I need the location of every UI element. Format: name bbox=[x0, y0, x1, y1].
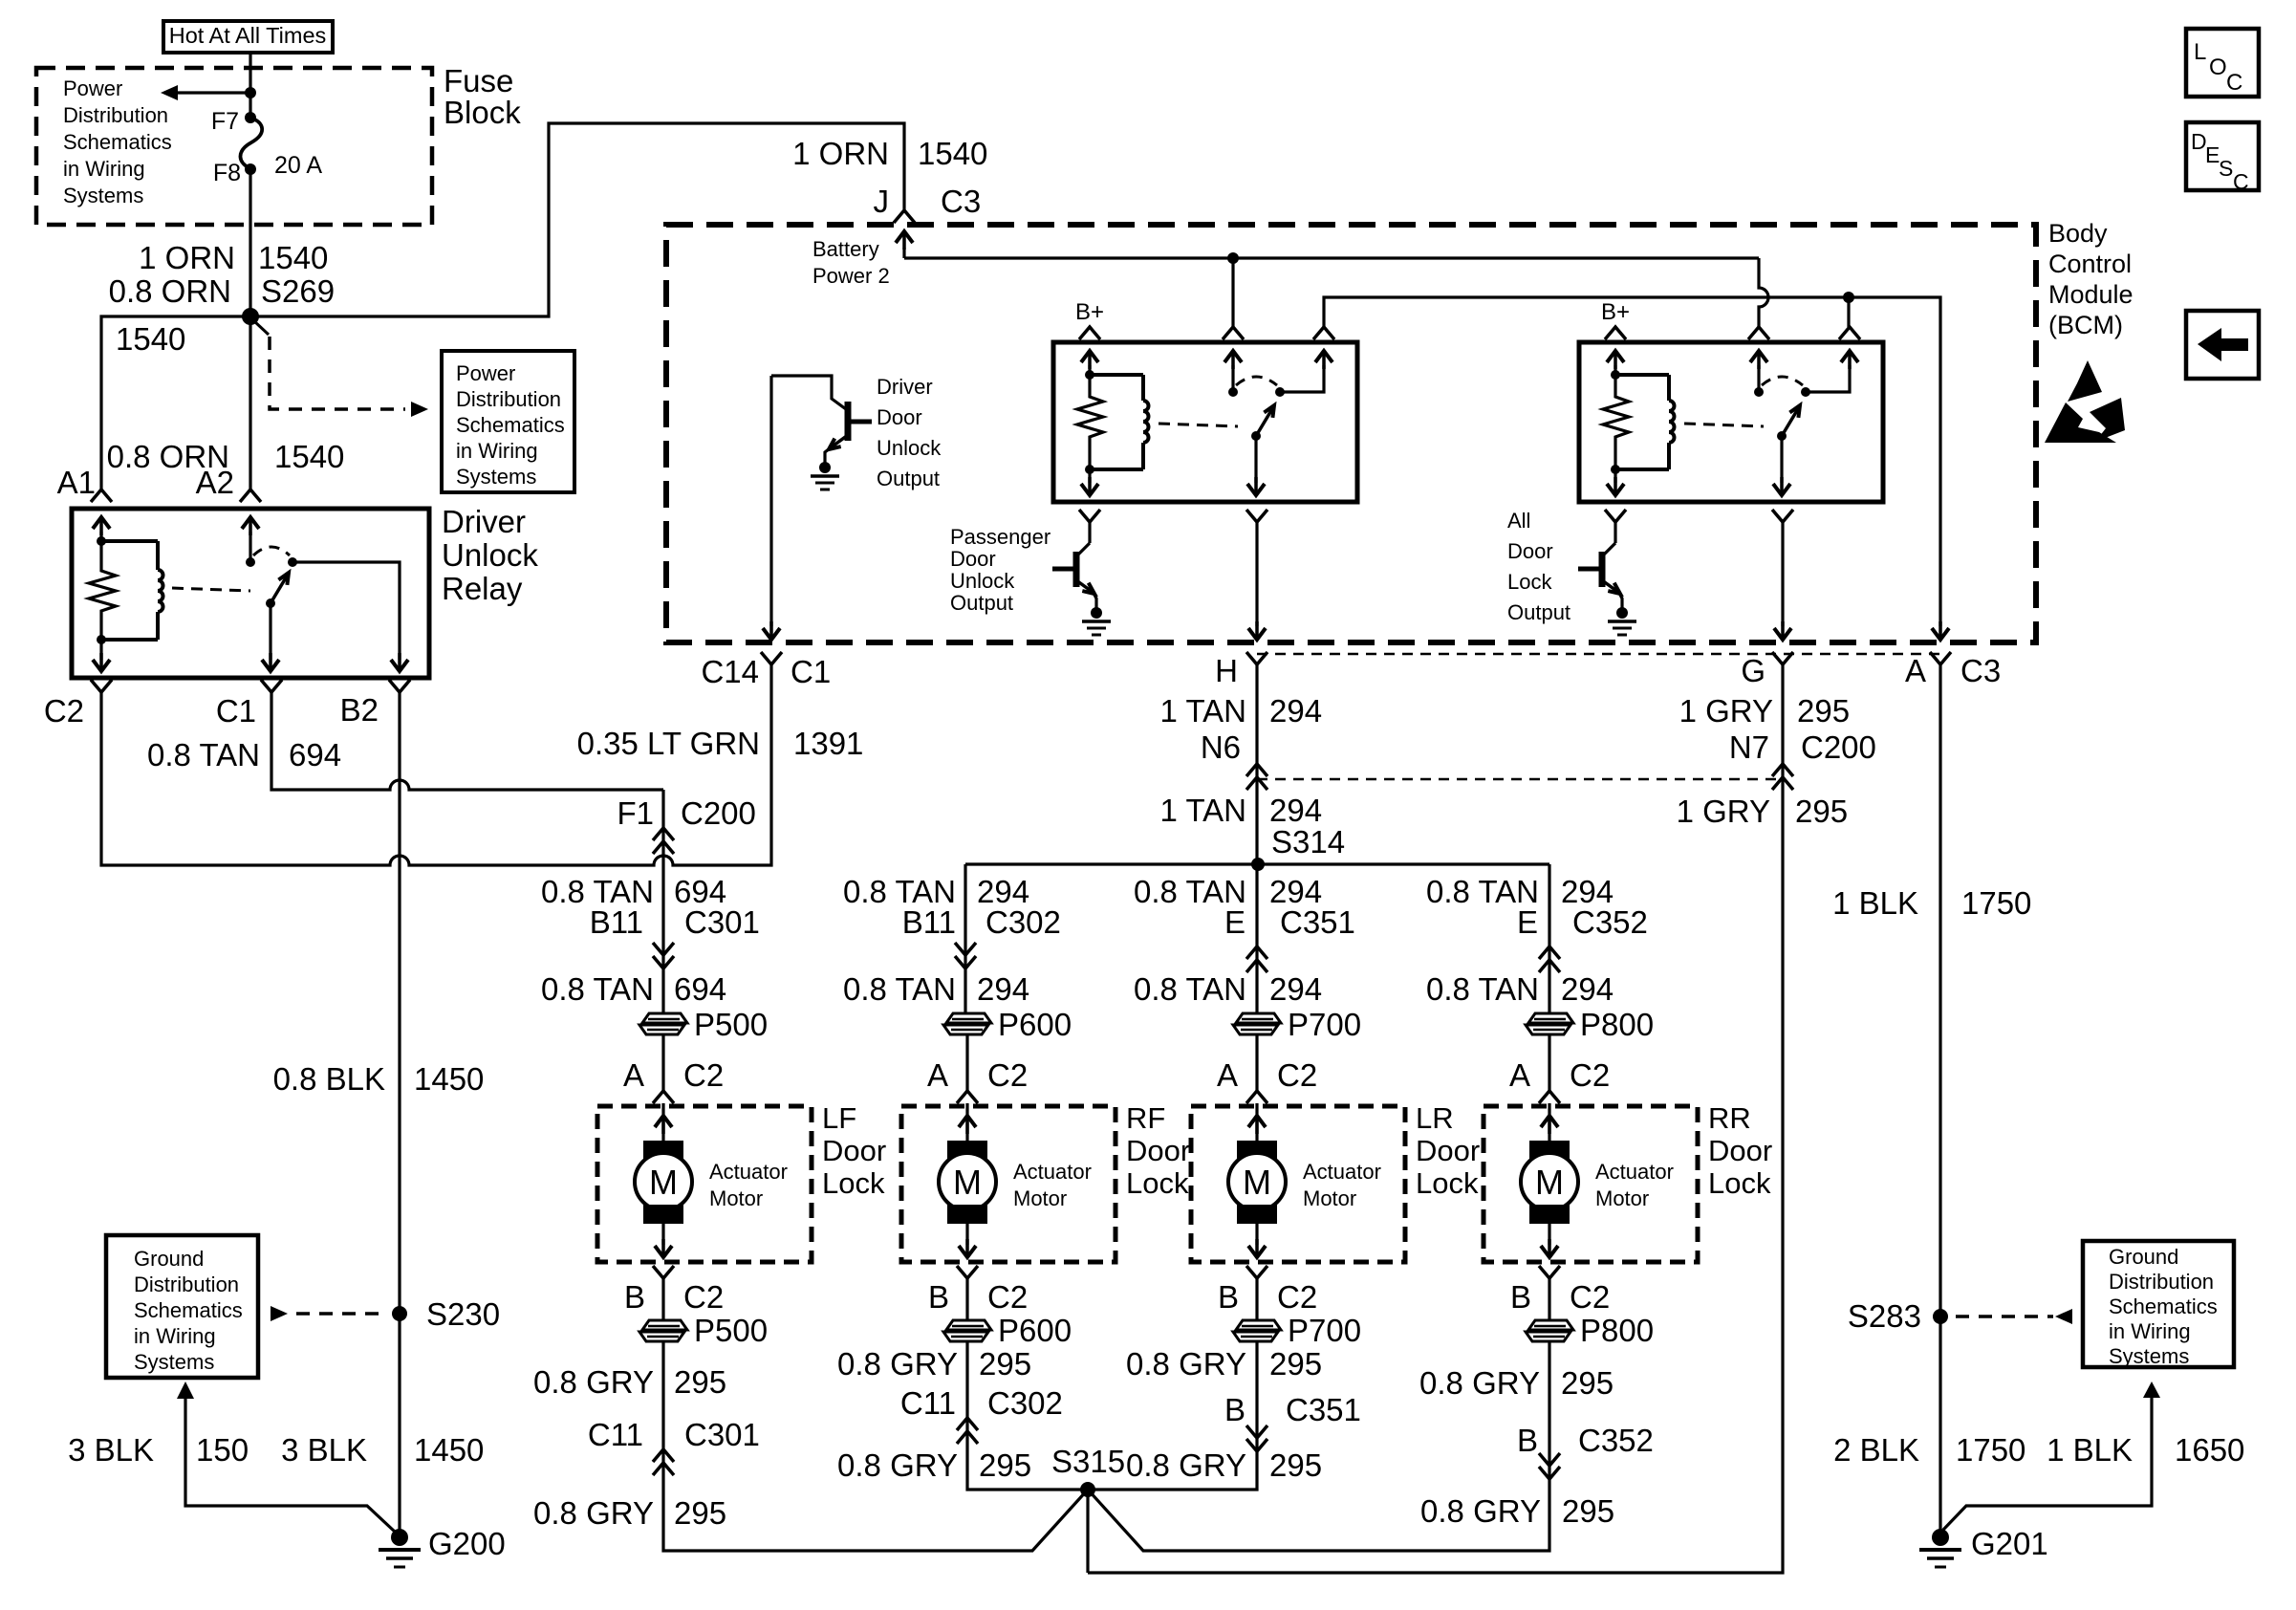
svg-text:1450: 1450 bbox=[414, 1432, 484, 1468]
ground at Q2 emitter bbox=[1091, 607, 1102, 619]
connector B11 C302 double vee bbox=[955, 943, 976, 955]
svg-text:Lock: Lock bbox=[1416, 1166, 1479, 1200]
wire 294 RR to P800 bbox=[1548, 946, 1550, 1013]
connector vee at C2 bbox=[91, 680, 112, 692]
svg-text:LR: LR bbox=[1416, 1101, 1454, 1135]
svg-text:0.35 LT GRN: 0.35 LT GRN bbox=[577, 726, 760, 761]
svg-text:C14: C14 bbox=[701, 654, 759, 689]
svg-text:C3: C3 bbox=[1960, 653, 2001, 688]
svg-text:B+: B+ bbox=[1075, 299, 1104, 325]
dashed reference to S230 bbox=[271, 1306, 288, 1321]
connector E C352 double caret bbox=[1539, 946, 1560, 959]
RF actuator return arrow bbox=[965, 1224, 968, 1245]
svg-text:Ground: Ground bbox=[134, 1247, 204, 1271]
svg-text:Fuse: Fuse bbox=[444, 63, 513, 98]
svg-text:0.8 TAN: 0.8 TAN bbox=[843, 971, 956, 1007]
svg-text:294: 294 bbox=[1269, 693, 1322, 729]
svg-text:F8: F8 bbox=[213, 160, 241, 186]
svg-text:Motor: Motor bbox=[1013, 1186, 1067, 1210]
LF actuator return arrow bbox=[661, 1224, 664, 1245]
svg-text:294: 294 bbox=[1269, 971, 1322, 1007]
svg-text:1450: 1450 bbox=[414, 1061, 484, 1097]
svg-text:Power: Power bbox=[456, 361, 515, 385]
svg-text:H: H bbox=[1215, 653, 1238, 688]
wire 294 LR to P700 bbox=[1255, 946, 1258, 1013]
ground G201 bbox=[1932, 1529, 1949, 1546]
wire 1 BLK 1750 pin A to S283 bbox=[1939, 664, 1941, 1316]
svg-text:P800: P800 bbox=[1580, 1313, 1654, 1348]
svg-text:M: M bbox=[1535, 1163, 1564, 1202]
relay coil exit arrow to C2 bbox=[99, 640, 102, 660]
svg-text:P500: P500 bbox=[694, 1007, 768, 1042]
svg-text:0.8 TAN: 0.8 TAN bbox=[541, 971, 654, 1007]
RR actuator return arrow bbox=[1548, 1224, 1550, 1245]
svg-text:C: C bbox=[2226, 70, 2242, 96]
wire 295 RR return bbox=[1088, 1341, 1549, 1551]
svg-text:S314: S314 bbox=[1271, 824, 1345, 859]
connector vee BCM pin G bbox=[1772, 652, 1793, 664]
svg-text:A1: A1 bbox=[57, 465, 96, 500]
svg-text:C2: C2 bbox=[683, 1279, 724, 1315]
svg-text:J: J bbox=[874, 184, 890, 219]
battery power 2 bus wire bbox=[904, 256, 1759, 259]
wire into RF actuator bbox=[965, 1035, 968, 1091]
svg-text:S315: S315 bbox=[1051, 1444, 1125, 1479]
svg-text:F7: F7 bbox=[211, 108, 239, 135]
svg-text:C352: C352 bbox=[1578, 1423, 1654, 1458]
grommet P700 (lower) bbox=[1236, 1320, 1281, 1330]
svg-text:Output: Output bbox=[950, 591, 1013, 615]
relay U1 unlock coil exit arrow bbox=[1088, 469, 1091, 483]
relay U2 all-door-lock switch throw arc (dashed) bbox=[1762, 377, 1803, 385]
svg-text:A: A bbox=[1905, 653, 1926, 688]
lock relay contact riser bbox=[1847, 297, 1850, 327]
label box Hot At All Times bbox=[163, 21, 333, 53]
DESC nav box bbox=[2186, 122, 2259, 190]
dashed reference to ground note (right) bbox=[1956, 1315, 2053, 1318]
svg-text:Power 2: Power 2 bbox=[812, 264, 890, 288]
relay contact wire to B2 bbox=[292, 562, 400, 660]
svg-text:C302: C302 bbox=[987, 1385, 1063, 1421]
junction dot battery bus to unlock relay bbox=[1227, 252, 1239, 264]
transistor Q1 Driver Door Unlock Output bbox=[771, 376, 846, 409]
wire LR pin B to grommet bbox=[1255, 1278, 1258, 1320]
svg-text:L: L bbox=[2194, 39, 2206, 65]
connector vee at B2 bbox=[389, 680, 410, 692]
ground G200 bbox=[391, 1529, 408, 1546]
relay switch pole wire to C1 bbox=[269, 603, 271, 660]
wire from S269 left to relay pin A1 bbox=[101, 316, 250, 490]
svg-text:C2: C2 bbox=[1277, 1279, 1317, 1315]
svg-text:1540: 1540 bbox=[274, 439, 344, 474]
connector caret LR pin A bbox=[1246, 1091, 1267, 1103]
relay U2 all-door-lock vee at pole exit bbox=[1772, 510, 1793, 522]
svg-text:B+: B+ bbox=[1601, 299, 1630, 325]
relay U2 all-door-lock contact to feed elbow bbox=[1806, 365, 1850, 392]
relay U1 unlock coil feed arrow bbox=[1081, 351, 1098, 362]
inline connector C200 corridor (dashed) bbox=[1257, 653, 1943, 656]
connector vee LF pin B bbox=[653, 1266, 674, 1278]
LF door lock dashed box bbox=[597, 1106, 812, 1262]
svg-text:20 A: 20 A bbox=[274, 152, 322, 179]
connector vee BCM pin H bbox=[1246, 652, 1267, 664]
svg-text:1 GRY: 1 GRY bbox=[1679, 693, 1773, 729]
svg-text:B2: B2 bbox=[340, 692, 379, 728]
svg-text:Schematics: Schematics bbox=[134, 1298, 243, 1322]
svg-text:in Wiring: in Wiring bbox=[134, 1324, 216, 1348]
RF actuator feed arrow bbox=[965, 1106, 968, 1143]
fuse F8 terminal dot bbox=[245, 163, 256, 175]
connector N7 C200 double caret bbox=[1772, 764, 1793, 776]
svg-text:Control: Control bbox=[2048, 250, 2132, 278]
svg-text:N7: N7 bbox=[1729, 729, 1769, 765]
connector vee at C1 bbox=[261, 680, 282, 692]
svg-text:M: M bbox=[1243, 1163, 1271, 1202]
grommet P800 (upper) bbox=[1528, 1013, 1573, 1023]
svg-text:Module: Module bbox=[2048, 280, 2134, 309]
relay U1 unlock switch arm bbox=[1256, 407, 1273, 436]
relay U2 all-door-lock vee at coil exit bbox=[1605, 510, 1626, 522]
svg-text:Door: Door bbox=[950, 547, 996, 571]
svg-text:0.8 TAN: 0.8 TAN bbox=[1426, 971, 1539, 1007]
wire S315 to ground bus bbox=[1086, 1490, 1089, 1573]
svg-text:S230: S230 bbox=[426, 1296, 500, 1332]
connector vee RR pin B bbox=[1539, 1266, 1560, 1278]
svg-text:295: 295 bbox=[979, 1447, 1031, 1483]
relay switch right contact dot bbox=[288, 557, 297, 567]
svg-text:Battery: Battery bbox=[812, 237, 879, 261]
relay U1 unlock contact to feed elbow bbox=[1280, 365, 1324, 392]
svg-text:Power: Power bbox=[63, 76, 122, 100]
relay suppression resistor bbox=[89, 541, 116, 640]
grommet P500 (upper) bbox=[642, 1013, 687, 1023]
connector vee BCM pin C14 bbox=[761, 652, 782, 664]
svg-text:C351: C351 bbox=[1286, 1392, 1361, 1427]
connector caret RF pin A bbox=[957, 1091, 978, 1103]
wire 3 BLK 150 from note box to G200 bbox=[177, 1382, 194, 1399]
connector vee RF pin B bbox=[957, 1266, 978, 1278]
svg-text:295: 295 bbox=[1795, 794, 1848, 829]
relay actuation dashed link bbox=[172, 588, 250, 591]
connector vee BCM pin A bbox=[1930, 652, 1951, 664]
svg-text:294: 294 bbox=[1269, 793, 1322, 828]
arrow to power distribution (left) bbox=[176, 91, 250, 94]
actuator motor M (RR) bbox=[1529, 1141, 1570, 1160]
svg-text:C1: C1 bbox=[791, 654, 831, 689]
junction dot at arrow takeoff bbox=[245, 87, 256, 98]
svg-text:295: 295 bbox=[1269, 1346, 1322, 1382]
svg-text:Driver: Driver bbox=[877, 375, 933, 399]
svg-text:0.8 TAN: 0.8 TAN bbox=[147, 737, 260, 772]
svg-text:Output: Output bbox=[877, 467, 940, 490]
svg-text:0.8 GRY: 0.8 GRY bbox=[1420, 1493, 1541, 1529]
junction dot all-lock bus bbox=[1843, 292, 1854, 303]
svg-text:N6: N6 bbox=[1201, 729, 1241, 765]
svg-text:E: E bbox=[1517, 904, 1538, 940]
ESD sensitive device symbol bbox=[2068, 360, 2102, 402]
wire into LF actuator bbox=[661, 1035, 664, 1091]
svg-text:S269: S269 bbox=[261, 273, 335, 309]
relay U2 all-door-lock coil top dot bbox=[1611, 370, 1620, 380]
svg-text:A: A bbox=[623, 1057, 644, 1093]
LR actuator return arrow bbox=[1255, 1224, 1258, 1245]
LF actuator feed arrow bbox=[661, 1106, 664, 1143]
ground distribution note box (right) bbox=[2083, 1241, 2234, 1367]
transistor Q2 Passenger Door Unlock Output bbox=[1088, 522, 1091, 543]
svg-text:Motor: Motor bbox=[709, 1186, 763, 1210]
relay U2 all-door-lock coil bottom dot bbox=[1611, 465, 1620, 474]
svg-text:F1: F1 bbox=[617, 795, 654, 831]
svg-text:294: 294 bbox=[977, 971, 1029, 1007]
svg-text:P600: P600 bbox=[998, 1313, 1072, 1348]
relay U1 unlock box bbox=[1053, 342, 1357, 502]
wire 294 drop to RF door bbox=[964, 864, 966, 945]
relay U2 all-door-lock coil exit arrow bbox=[1614, 469, 1616, 483]
svg-text:C2: C2 bbox=[44, 693, 84, 729]
relay U2 all-door-lock switch common contact dot bbox=[1754, 387, 1764, 397]
wire LT GRN from Q1 to BCM pin C14 bbox=[769, 376, 772, 626]
svg-text:C200: C200 bbox=[681, 795, 756, 831]
svg-text:1391: 1391 bbox=[793, 726, 863, 761]
RF door lock dashed box bbox=[901, 1106, 1116, 1262]
body control module dashed box bbox=[666, 225, 2036, 642]
svg-text:C351: C351 bbox=[1280, 904, 1355, 940]
driver unlock relay box bbox=[72, 509, 429, 678]
connector caret RR pin A bbox=[1539, 1091, 1560, 1103]
relay U2 all-door-lock switch pole exit arrow bbox=[1780, 436, 1783, 483]
svg-text:Motor: Motor bbox=[1595, 1186, 1649, 1210]
wire LF pin B to grommet bbox=[661, 1278, 664, 1320]
connector J C3 caret into BCM bbox=[894, 210, 915, 223]
LR door lock dashed box bbox=[1191, 1106, 1405, 1262]
svg-text:B: B bbox=[1517, 1423, 1538, 1458]
svg-text:B: B bbox=[1510, 1279, 1531, 1315]
svg-text:Lock: Lock bbox=[1708, 1166, 1771, 1200]
wire 1 GRY 295 pin G down to S315 bus bbox=[1088, 664, 1783, 1573]
relay U1 unlock suppression resistor bbox=[1077, 375, 1103, 469]
svg-text:295: 295 bbox=[1269, 1447, 1322, 1483]
svg-text:All: All bbox=[1507, 509, 1530, 533]
relay pin A2 arrow (switch common) bbox=[242, 517, 259, 529]
wire 294 drop to RR door bbox=[1548, 864, 1550, 946]
svg-text:Systems: Systems bbox=[2109, 1344, 2189, 1368]
svg-text:in Wiring: in Wiring bbox=[456, 439, 538, 463]
svg-text:G: G bbox=[1741, 653, 1765, 688]
splice S269 bbox=[242, 308, 259, 325]
relay U2 all-door-lock switch common arrow bbox=[1750, 351, 1767, 362]
svg-text:S: S bbox=[2219, 156, 2233, 181]
svg-text:Actuator: Actuator bbox=[1595, 1160, 1674, 1184]
svg-text:1540: 1540 bbox=[116, 321, 185, 357]
relay U1 unlock switch common contact dot bbox=[1228, 387, 1238, 397]
svg-text:1 BLK: 1 BLK bbox=[1832, 885, 1918, 921]
svg-text:1540: 1540 bbox=[918, 136, 987, 171]
svg-text:0.8 GRY: 0.8 GRY bbox=[1419, 1365, 1540, 1401]
svg-text:Driver: Driver bbox=[442, 504, 526, 539]
svg-text:C2: C2 bbox=[987, 1279, 1028, 1315]
svg-text:294: 294 bbox=[1561, 971, 1614, 1007]
relay U1 unlock coil bottom dot bbox=[1085, 465, 1094, 474]
wire 694 from relay C1 to F1 C200 bbox=[271, 692, 663, 790]
wire BLK 1750 to BCM pin A bbox=[1932, 628, 1949, 640]
svg-text:Systems: Systems bbox=[456, 465, 536, 489]
svg-text:C11: C11 bbox=[900, 1385, 956, 1421]
LOC nav box bbox=[2186, 29, 2259, 97]
unlock relay coil feed riser with hop bbox=[1759, 258, 1768, 327]
svg-text:295: 295 bbox=[674, 1364, 726, 1400]
relay U1 unlock coil winding bbox=[1090, 373, 1143, 377]
connector B C351 double vee bbox=[1246, 1425, 1267, 1438]
svg-text:B: B bbox=[1218, 1279, 1239, 1315]
wire 295 LR return bbox=[1088, 1341, 1257, 1490]
wire GRY 295 relay U2 pole to BCM pin G bbox=[1781, 522, 1784, 626]
svg-text:Distribution: Distribution bbox=[2109, 1270, 2214, 1294]
svg-text:0.8 GRY: 0.8 GRY bbox=[837, 1346, 958, 1382]
fuse block dashed box bbox=[36, 68, 432, 225]
svg-text:2 BLK: 2 BLK bbox=[1833, 1432, 1919, 1468]
relay switch throw arc (dashed) bbox=[253, 547, 290, 555]
relay U1 unlock caret at contact pin bbox=[1313, 327, 1334, 339]
svg-text:Distribution: Distribution bbox=[456, 387, 561, 411]
svg-text:G201: G201 bbox=[1971, 1526, 2048, 1561]
svg-text:C301: C301 bbox=[684, 904, 760, 940]
svg-text:Output: Output bbox=[1507, 600, 1570, 624]
wire RF pin B to grommet bbox=[965, 1278, 968, 1320]
svg-text:Unlock: Unlock bbox=[442, 537, 538, 573]
ground at Q3 emitter bbox=[1616, 607, 1628, 619]
grommet P500 (lower) bbox=[642, 1320, 687, 1330]
svg-text:Unlock: Unlock bbox=[950, 569, 1015, 593]
wire 295 LF return bbox=[663, 1341, 1088, 1551]
relay U2 all-door-lock caret at contact pin bbox=[1839, 327, 1860, 339]
svg-text:LF: LF bbox=[822, 1101, 856, 1135]
wire from Hot At All Times into fuse block bbox=[249, 53, 251, 118]
wire 294 distribution from S314 bbox=[965, 862, 1549, 865]
LR actuator feed arrow bbox=[1255, 1106, 1258, 1143]
svg-text:RR: RR bbox=[1708, 1101, 1751, 1135]
svg-text:Lock: Lock bbox=[822, 1166, 885, 1200]
svg-text:0.8 GRY: 0.8 GRY bbox=[837, 1447, 958, 1483]
dashed reference from S269 to power distribution note bbox=[254, 321, 269, 335]
relay U1 unlock coil top dot bbox=[1085, 370, 1094, 380]
connector caret at A2 bbox=[240, 490, 261, 502]
wire 694 F1 to P500 bbox=[661, 790, 664, 1013]
actuator motor M (LR) bbox=[1237, 1141, 1277, 1160]
back arrow nav box bbox=[2186, 311, 2259, 379]
relay switch common contact dot bbox=[246, 557, 255, 567]
relay U1 unlock switch throw arc (dashed) bbox=[1236, 377, 1277, 385]
svg-text:Distribution: Distribution bbox=[134, 1273, 239, 1296]
svg-text:Schematics: Schematics bbox=[2109, 1295, 2218, 1318]
svg-text:C302: C302 bbox=[986, 904, 1061, 940]
svg-text:Body: Body bbox=[2048, 219, 2108, 248]
svg-text:1650: 1650 bbox=[2175, 1432, 2244, 1468]
relay U1 unlock switch common arrow bbox=[1224, 351, 1242, 362]
wire 294 LR S314 to C351 bbox=[1255, 864, 1258, 946]
transistor Q3 All Door Lock Output bbox=[1614, 522, 1616, 543]
wire from S269 to BCM J C3 bbox=[250, 123, 904, 316]
svg-text:Hot At All Times: Hot At All Times bbox=[169, 23, 327, 48]
relay U2 all-door-lock coil feed arrow bbox=[1607, 351, 1624, 362]
svg-text:S283: S283 bbox=[1848, 1298, 1921, 1334]
svg-text:in Wiring: in Wiring bbox=[63, 157, 145, 181]
svg-text:3 BLK: 3 BLK bbox=[68, 1432, 154, 1468]
wire 294 RF to P600 bbox=[964, 945, 966, 1013]
fuse element F7-F8 20 A bbox=[240, 118, 262, 169]
svg-text:1 TAN: 1 TAN bbox=[1160, 793, 1246, 828]
svg-text:1 ORN: 1 ORN bbox=[139, 240, 235, 275]
relay U2 all-door-lock box bbox=[1579, 342, 1883, 502]
svg-text:295: 295 bbox=[674, 1495, 726, 1531]
svg-text:Passenger: Passenger bbox=[950, 525, 1051, 549]
wire TAN 294 relay U1 pole to BCM pin H bbox=[1255, 522, 1258, 626]
relay U1 unlock vee at pole exit bbox=[1246, 510, 1267, 522]
svg-text:Systems: Systems bbox=[63, 184, 143, 207]
relay coil bottom junction dot bbox=[97, 635, 106, 644]
svg-text:P700: P700 bbox=[1288, 1313, 1361, 1348]
svg-text:694: 694 bbox=[674, 971, 726, 1007]
svg-text:C352: C352 bbox=[1572, 904, 1648, 940]
svg-text:B11: B11 bbox=[590, 904, 643, 940]
svg-text:RF: RF bbox=[1126, 1101, 1165, 1135]
svg-text:P800: P800 bbox=[1580, 1007, 1654, 1042]
svg-text:1540: 1540 bbox=[258, 240, 328, 275]
relay switch arm bbox=[271, 575, 288, 603]
svg-text:Door: Door bbox=[1416, 1134, 1480, 1167]
svg-text:Door: Door bbox=[1708, 1134, 1772, 1167]
wire into LR actuator bbox=[1255, 1035, 1258, 1091]
wire 0.8 BLK 1450 from relay B2 to S230 bbox=[398, 692, 401, 1314]
grommet P700 (upper) bbox=[1236, 1013, 1281, 1023]
svg-text:C1: C1 bbox=[216, 693, 256, 729]
connector caret at A1 bbox=[91, 490, 112, 502]
svg-text:C11: C11 bbox=[588, 1417, 643, 1452]
connector F1 C200 double caret bbox=[653, 828, 674, 840]
svg-text:Relay: Relay bbox=[442, 571, 523, 606]
splice S230 bbox=[392, 1306, 407, 1321]
svg-text:295: 295 bbox=[979, 1346, 1031, 1382]
relay U2 all-door-lock caret at common pin bbox=[1748, 327, 1769, 339]
wire 1 TAN 294 pin H to S314 bbox=[1255, 664, 1258, 864]
grommet P600 (upper) bbox=[946, 1013, 991, 1023]
svg-text:C301: C301 bbox=[684, 1417, 760, 1452]
svg-text:M: M bbox=[953, 1163, 982, 1202]
svg-text:B: B bbox=[928, 1279, 949, 1315]
relay U1 unlock switch right contact dot bbox=[1275, 387, 1285, 397]
connector caret LF pin A bbox=[653, 1091, 674, 1103]
svg-text:B: B bbox=[1224, 1392, 1245, 1427]
splice S314 bbox=[1251, 858, 1265, 871]
svg-text:0.8 GRY: 0.8 GRY bbox=[533, 1495, 654, 1531]
power distribution note box bbox=[442, 351, 574, 492]
svg-text:Unlock: Unlock bbox=[877, 436, 942, 460]
connector B11 C301 double vee bbox=[653, 943, 674, 955]
svg-text:0.8 BLK: 0.8 BLK bbox=[273, 1061, 385, 1097]
grommet P800 (lower) bbox=[1528, 1320, 1573, 1330]
actuator motor M (RF) bbox=[947, 1141, 987, 1160]
connector E C351 double caret bbox=[1246, 946, 1267, 959]
svg-text:Door: Door bbox=[1507, 539, 1553, 563]
relay switch pivot dot bbox=[266, 598, 275, 608]
svg-text:1 TAN: 1 TAN bbox=[1160, 693, 1246, 729]
svg-text:Schematics: Schematics bbox=[456, 413, 565, 437]
wire RR pin B to grommet bbox=[1548, 1278, 1550, 1320]
svg-text:Door: Door bbox=[877, 405, 922, 429]
svg-text:C3: C3 bbox=[941, 184, 981, 219]
svg-text:Actuator: Actuator bbox=[1013, 1160, 1092, 1184]
grommet P600 (lower) bbox=[946, 1320, 991, 1330]
svg-text:0.8 GRY: 0.8 GRY bbox=[1126, 1447, 1246, 1483]
